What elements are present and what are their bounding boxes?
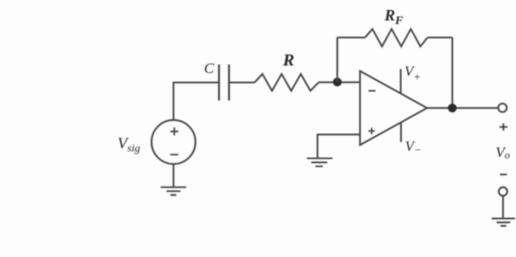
- wire non-inverting input to ground: [318, 135, 361, 158]
- + input mark (op-amp): [368, 128, 375, 135]
- node: inverting input junction: [333, 78, 342, 87]
- capacitor C: [219, 65, 229, 101]
- wire capacitor to resistor R: [229, 82, 255, 84]
- wire R_F down to output node: [451, 38, 453, 109]
- feedback resistor R_F: [365, 29, 428, 46]
- label - (output polarity): [500, 174, 507, 176]
- svg-text:V−: V−: [405, 139, 421, 157]
- voltage source V_sig: [152, 120, 196, 164]
- + polarity mark (source): [170, 127, 178, 135]
- svg-text:V+: V+: [405, 64, 421, 83]
- wire lower terminal to ground: [502, 196, 504, 219]
- ground (output): [492, 219, 515, 226]
- - input mark (op-amp): [369, 90, 376, 92]
- svg-text:C: C: [204, 61, 215, 77]
- svg-text:Vo: Vo: [496, 145, 510, 162]
- V+ supply pin: [400, 69, 402, 94]
- wire R_F left lead: [337, 37, 365, 39]
- svg-text:R: R: [282, 51, 294, 70]
- resistor R: [255, 74, 319, 91]
- svg-text:Vsig: Vsig: [118, 136, 141, 155]
- svg-text:RF: RF: [384, 8, 404, 27]
- ground (source): [161, 187, 187, 195]
- wire R_F right lead: [428, 37, 453, 39]
- wire source top to capacitor: [174, 83, 219, 121]
- V- supply pin: [400, 122, 402, 142]
- wire node up to R_F: [336, 38, 338, 83]
- output node: [448, 104, 457, 113]
- op-amp U1: [360, 71, 427, 145]
- wire R to inverting input (through node): [319, 81, 361, 83]
- - polarity mark (source): [170, 154, 178, 156]
- output terminal (open circle): [498, 104, 507, 113]
- lower output terminal (open circle): [499, 187, 508, 196]
- ground (op-amp + input): [307, 158, 333, 166]
- output wire apex to terminal: [427, 107, 498, 109]
- wire source bottom to ground: [173, 164, 175, 187]
- label + (output polarity): [499, 123, 507, 130]
